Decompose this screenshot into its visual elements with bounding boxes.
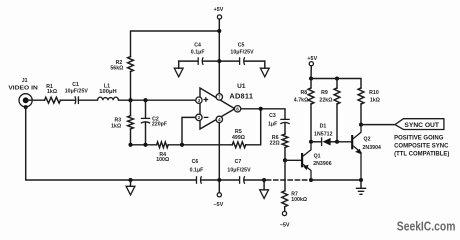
node: C2 top junction: [143, 98, 147, 102]
svg-text:10μF/25V: 10μF/25V: [230, 49, 254, 55]
svg-text:100μH: 100μH: [99, 89, 117, 95]
svg-text:C1: C1: [72, 82, 79, 88]
node R3 bottom: [128, 143, 132, 147]
svg-text:C4: C4: [194, 43, 201, 49]
wire base node down to R7: [284, 160, 286, 191]
svg-text:499Ω: 499Ω: [232, 135, 245, 141]
svg-text:R9: R9: [321, 90, 328, 96]
wire bottom feedback rail: [131, 109, 261, 145]
capacitor C6: [190, 159, 204, 184]
wire bottom rail to C6: [131, 179, 197, 181]
svg-text:−5V: −5V: [213, 202, 224, 208]
transistor Q1 2N3906: [285, 142, 332, 180]
wire dashed ground link: [267, 179, 312, 181]
node rail/R2: [217, 29, 221, 33]
svg-text:−5V: −5V: [280, 222, 291, 228]
svg-text:10μF/25V: 10μF/25V: [227, 168, 251, 174]
svg-text:1kΩ: 1kΩ: [370, 98, 380, 104]
label positive going composite sync: [394, 136, 449, 158]
wire pin4 supply down: [218, 118, 220, 180]
node C2 bottom: [143, 143, 147, 147]
svg-text:1kΩ: 1kΩ: [47, 89, 57, 95]
transistor Q2 2N3904: [337, 125, 381, 180]
svg-text:C6: C6: [192, 159, 199, 165]
node decoupling rail: [217, 59, 221, 63]
pin 3: [196, 97, 202, 103]
node output junction: [259, 107, 263, 111]
svg-text:1kΩ: 1kΩ: [111, 124, 121, 130]
svg-text:100kΩ: 100kΩ: [291, 197, 307, 203]
svg-text:0.1μF: 0.1μF: [190, 168, 204, 174]
-5V terminal under R7: [280, 207, 291, 229]
resistor R1: [45, 84, 61, 103]
capacitor C3: [268, 113, 290, 128]
svg-text:22Ω: 22Ω: [270, 141, 280, 147]
wire R1 to C1: [60, 99, 74, 101]
svg-text:22kΩ: 22kΩ: [319, 98, 332, 104]
ground at C4: [174, 61, 183, 77]
node R8 top: [309, 77, 313, 81]
resistor R5: [232, 129, 246, 148]
node Q2 base/D1/R9: [335, 140, 339, 144]
resistor R4: [156, 142, 169, 163]
svg-text:2: 2: [198, 115, 201, 120]
wire +5V rail down: [218, 19, 220, 61]
svg-text:Q2: Q2: [364, 137, 371, 143]
wire R9 to D1 cathode node: [336, 104, 338, 142]
svg-text:100Ω: 100Ω: [156, 157, 169, 163]
node feedback junction: [180, 143, 184, 147]
pin 4: [216, 116, 222, 122]
svg-text:3: 3: [198, 98, 201, 103]
wire R2 top rail: [131, 31, 220, 100]
resistor R10: [358, 88, 380, 104]
wire Q1 emitter to Q2 emitter: [311, 179, 361, 181]
svg-text:4: 4: [218, 117, 221, 122]
svg-text:U1: U1: [237, 83, 246, 90]
pin 2: [196, 114, 202, 120]
node sync out: [359, 123, 363, 127]
wire decoupling right: [219, 60, 264, 62]
svg-text:4.7kΩ: 4.7kΩ: [294, 98, 309, 104]
svg-text:POSITIVE GOING: POSITIVE GOING: [394, 136, 444, 142]
svg-text:R8: R8: [300, 90, 307, 96]
wire feedback to - input: [182, 117, 196, 144]
pin 6: [234, 106, 240, 112]
earth ground at Q2: [356, 180, 366, 194]
wire C3 to R6: [284, 123, 286, 134]
wire collector to D1: [311, 141, 322, 143]
wire C6 to C7: [202, 179, 240, 181]
node C7 ground: [262, 178, 266, 182]
node bottom-rail ground: [128, 178, 132, 182]
svg-text:AD811: AD811: [229, 91, 253, 100]
wire +5V right rail: [311, 66, 361, 88]
svg-text:R10: R10: [369, 90, 379, 96]
-5V terminal center: [213, 180, 224, 208]
wire R8 to collector node: [310, 104, 312, 142]
svg-text:1μF: 1μF: [268, 122, 277, 128]
node -5V junction: [217, 178, 221, 182]
node: input/R3 junction: [128, 98, 132, 102]
connector J1: [8, 78, 38, 109]
resistor R2: [110, 57, 133, 72]
svg-text:0.1μF: 0.1μF: [191, 49, 205, 55]
ground at C5: [260, 61, 269, 77]
resistor R8: [294, 79, 314, 105]
capacitor C2: [141, 100, 167, 145]
wire R10 to sync node: [360, 104, 362, 125]
wire J1 ground down: [26, 107, 131, 180]
svg-text:(TTL COMPATIBLE): (TTL COMPATIBLE): [394, 151, 449, 157]
wire J1 to R1: [26, 99, 45, 101]
capacitor C7: [227, 159, 251, 184]
wire L1 to op-amp + input: [119, 99, 196, 101]
wire R6 to base node: [284, 148, 286, 161]
svg-text:C7: C7: [235, 159, 242, 165]
svg-text:2N3904: 2N3904: [363, 145, 382, 151]
inductor L1: [98, 84, 119, 101]
wire pin7 supply: [218, 61, 220, 99]
svg-text:VIDEO IN: VIDEO IN: [8, 85, 38, 91]
op-amp U1 AD811: [200, 83, 253, 129]
capacitor C1: [65, 82, 89, 104]
wire D1 to base node: [331, 141, 337, 143]
node Q2 emitter: [359, 178, 363, 182]
node Q1 emitter: [309, 178, 313, 182]
ground at C7: [260, 180, 269, 198]
capacitor C5: [230, 43, 254, 65]
wire to SYNC OUT flag: [361, 124, 395, 126]
svg-text:1N5712: 1N5712: [314, 131, 333, 137]
wire C1 to L1: [78, 99, 97, 101]
svg-text:+5V: +5V: [307, 56, 317, 62]
node Q1 collector: [309, 140, 313, 144]
node Q1 base: [283, 158, 287, 162]
resistor R6: [270, 134, 288, 148]
svg-text:220pF: 220pF: [152, 122, 167, 128]
ground at bottom rail: [126, 180, 135, 195]
capacitor C4: [191, 43, 205, 65]
svg-text:COMPOSITE SYNC: COMPOSITE SYNC: [394, 143, 449, 149]
node R9 top: [335, 77, 339, 81]
+5V terminal right: [307, 56, 317, 66]
svg-text:+5V: +5V: [214, 7, 224, 13]
svg-text:J1: J1: [22, 78, 28, 84]
resistor R3: [111, 100, 133, 145]
svg-text:2N3906: 2N3906: [313, 161, 332, 167]
wire decoupling left: [179, 60, 220, 62]
pin 7: [216, 94, 222, 100]
diode D1 1N5712: [314, 124, 333, 146]
svg-text:7: 7: [218, 95, 221, 100]
resistor R7: [282, 191, 307, 207]
wire output: [235, 109, 285, 119]
resistor R9: [319, 79, 340, 105]
svg-text:C5: C5: [238, 43, 245, 49]
svg-text:C3: C3: [269, 113, 276, 119]
svg-text:Q1: Q1: [314, 154, 321, 160]
svg-text:6: 6: [236, 107, 239, 112]
svg-text:SeekIC.com: SeekIC.com: [397, 219, 456, 234]
+5V terminal top: [214, 7, 224, 19]
svg-text:SYNC OUT: SYNC OUT: [404, 122, 439, 129]
svg-text:D1: D1: [320, 124, 327, 130]
svg-text:10μF/25V: 10μF/25V: [65, 89, 89, 95]
svg-text:56kΩ: 56kΩ: [110, 66, 123, 72]
wire C7 to ground node: [245, 179, 264, 181]
SYNC OUT flag: [395, 119, 444, 130]
